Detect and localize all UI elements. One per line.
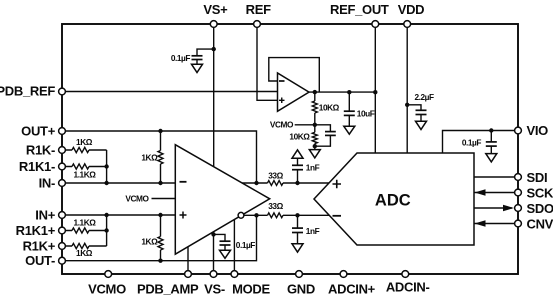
resistor 1KOhm feedback upper	[158, 131, 163, 183]
capacitor 1nF upper	[297, 170, 299, 183]
svg-text:R1K+: R1K+	[23, 239, 56, 254]
wire IN- row	[62, 182, 175, 184]
node OUT+ / 1K fb tap	[158, 129, 162, 133]
wire amp upper output row	[242, 182, 329, 184]
svg-text:1KΩ: 1KΩ	[141, 152, 158, 162]
svg-text:ADCIN-: ADCIN-	[386, 280, 430, 295]
label ADC minus input	[333, 215, 342, 217]
pin R1K+	[59, 243, 66, 250]
pin MODE	[231, 271, 238, 278]
svg-text:REF: REF	[246, 2, 271, 17]
label ADC plus input	[333, 180, 342, 189]
svg-text:REF_OUT: REF_OUT	[330, 2, 389, 17]
svg-text:ADC: ADC	[375, 192, 411, 210]
svg-text:PDB_AMP: PDB_AMP	[137, 282, 199, 297]
node IN- join	[104, 181, 108, 185]
svg-text:33Ω: 33Ω	[268, 170, 283, 180]
node VDD bypass tap	[405, 103, 409, 107]
ground (VIO cap)	[486, 154, 497, 162]
svg-text:SCK: SCK	[527, 186, 553, 201]
pin ADCIN+	[340, 271, 347, 278]
svg-text:OUT-: OUT-	[25, 253, 55, 268]
node IN+ join	[104, 213, 108, 217]
resistor 1.1KOhm (R1K1-)	[62, 164, 107, 169]
pin REF	[254, 21, 261, 28]
resistor 10KOhm upper	[312, 92, 317, 125]
svg-text:1KΩ: 1KΩ	[76, 137, 93, 147]
pin OUT+	[59, 128, 66, 135]
pin R1K1-	[59, 163, 66, 170]
svg-text:1KΩ: 1KΩ	[141, 237, 158, 247]
node R1K1+ join	[104, 228, 108, 232]
pin OUT-	[59, 257, 66, 264]
amplifier (fully differential driver)	[175, 145, 269, 255]
node buffer output / 10K tap	[313, 90, 317, 94]
wire SDI	[474, 176, 515, 178]
node OUT- / 1K fb tap	[158, 259, 162, 263]
node REF_OUT / buffer output	[373, 90, 377, 94]
wire R1K network vertical upper	[106, 150, 108, 183]
capacitor 0.1uF (VIO)	[490, 131, 492, 142]
svg-text:SDO: SDO	[527, 201, 553, 216]
pin CNV	[515, 220, 522, 227]
svg-text:VIO: VIO	[527, 123, 549, 138]
capacitor 0.1uF (VS-)	[220, 241, 231, 245]
resistor 33Ohm lower	[268, 213, 284, 218]
ADC block	[314, 153, 474, 245]
pin VS-	[210, 271, 217, 278]
svg-text:SDI: SDI	[527, 170, 548, 185]
wire SCK	[474, 192, 515, 194]
ground (VS- cap)	[220, 250, 231, 258]
label amp minus input	[180, 181, 187, 183]
wire VS+ vertical to amp	[213, 24, 215, 167]
node VS- cap tap	[211, 232, 215, 236]
wire VS- vertical	[213, 232, 215, 274]
resistor 10KOhm lower	[312, 125, 317, 146]
svg-text:1nF: 1nF	[306, 162, 320, 172]
pin R1K1+	[59, 227, 66, 234]
wire MODE vertical	[233, 220, 235, 275]
node upper 1nF tap	[295, 181, 299, 185]
ground (VS+ cap)	[192, 64, 203, 72]
pin ADCIN-	[402, 271, 409, 278]
ground (1nF lower)	[292, 244, 303, 252]
pin SDO	[515, 205, 522, 212]
svg-text:0.1µF: 0.1µF	[171, 53, 191, 63]
pin IN+	[59, 212, 66, 219]
svg-text:10KΩ: 10KΩ	[289, 132, 310, 142]
node VIO bypass tap	[489, 128, 493, 132]
svg-text:OUT+: OUT+	[21, 124, 56, 139]
arrowhead SCK into ADC	[475, 189, 486, 196]
node lower 1nF tap	[295, 213, 299, 217]
pin REF_OUT	[372, 21, 379, 28]
wire PDB_REF row	[62, 91, 278, 93]
inverting output bubble	[238, 212, 244, 218]
wire 10uF branch	[348, 92, 350, 111]
capacitor 1nF lower	[297, 215, 299, 228]
wire buffer feedback loop	[269, 58, 320, 93]
node 10uF tap	[347, 90, 351, 94]
resistor 1KOhm feedback lower	[158, 215, 163, 261]
outer package border	[62, 24, 518, 274]
wire VS- cap branch	[214, 234, 226, 241]
wire cap to ground	[196, 60, 198, 65]
node VCMO divider	[313, 123, 317, 127]
label amp plus input	[180, 212, 187, 219]
svg-text:CNV: CNV	[527, 217, 553, 232]
svg-text:33Ω: 33Ω	[268, 201, 283, 211]
svg-text:VDD: VDD	[398, 2, 425, 17]
node lower output fb	[254, 213, 258, 217]
svg-text:IN+: IN+	[35, 208, 55, 223]
svg-text:10KΩ: 10KΩ	[319, 102, 340, 112]
label buffer plus input	[279, 98, 285, 104]
node divider bottom	[313, 144, 317, 148]
wire OUT- feedback row	[62, 215, 257, 260]
wire PDB_AMP vertical	[187, 247, 189, 274]
wire REF_OUT vertical	[374, 24, 376, 153]
wire VS+ bypass branch	[197, 49, 214, 56]
pin IN-	[59, 180, 66, 187]
svg-text:R1K-: R1K-	[26, 143, 55, 158]
node upper output fb	[254, 181, 258, 185]
svg-text:VCMO: VCMO	[88, 282, 126, 297]
wire IN+ row	[62, 214, 175, 216]
svg-text:GND: GND	[287, 282, 315, 297]
resistor 33Ohm upper	[268, 181, 284, 186]
svg-text:1nF: 1nF	[306, 226, 320, 236]
capacitor 10uF	[344, 111, 355, 115]
svg-text:0.1µF: 0.1µF	[236, 240, 256, 250]
pin GND	[296, 271, 303, 278]
wire 2.2uF branch	[407, 105, 421, 111]
svg-text:IN-: IN-	[39, 176, 55, 191]
svg-text:10uF: 10uF	[357, 108, 375, 118]
svg-text:R1K1+: R1K1+	[16, 223, 56, 238]
pin VDD	[404, 21, 411, 28]
wire REF vertical to buffer + input	[257, 24, 278, 100]
pin SDI	[515, 174, 522, 181]
ground (2.2uF)	[416, 121, 427, 129]
wire SDO	[474, 207, 512, 209]
wire CNV	[474, 223, 515, 225]
resistor 1.1KOhm (R1K1+)	[62, 228, 107, 233]
svg-text:1KΩ: 1KΩ	[76, 248, 93, 258]
svg-text:VS-: VS-	[204, 282, 225, 297]
capacitor parallel to 10K	[315, 125, 331, 132]
wire amp lower output row	[244, 214, 329, 216]
wire VCMO label stub	[295, 124, 315, 126]
resistor 1KOhm (R1K-)	[62, 147, 107, 152]
svg-text:VS+: VS+	[203, 2, 228, 17]
svg-text:2.2µF: 2.2µF	[415, 92, 435, 102]
svg-text:VCMO: VCMO	[270, 120, 294, 130]
pin VCMO	[105, 271, 112, 278]
svg-text:PDB_REF: PDB_REF	[0, 83, 55, 98]
capacitor 2.2uF	[416, 110, 427, 114]
svg-text:ADCIN+: ADCIN+	[328, 282, 376, 297]
pin R1K-	[59, 147, 66, 154]
svg-text:R1K1-: R1K1-	[19, 159, 55, 174]
svg-text:1.1KΩ: 1.1KΩ	[74, 217, 97, 227]
ground (1nF upper, points up)	[292, 150, 303, 158]
arrowhead SDO to pin	[503, 205, 514, 212]
wire R1K network vertical lower	[106, 215, 108, 246]
pin SCK	[515, 189, 522, 196]
op-amp reference buffer	[278, 73, 310, 111]
ground (10uF)	[344, 126, 355, 134]
wire VCMO amp input	[152, 198, 176, 200]
wire OUT+ feedback row	[62, 131, 257, 183]
svg-text:VCMO: VCMO	[125, 193, 149, 203]
wire buffer output row	[309, 91, 375, 93]
node IN+ / 1K fb	[158, 213, 162, 217]
svg-text:1.1KΩ: 1.1KΩ	[74, 170, 97, 180]
pin PDB_AMP	[185, 271, 192, 278]
arrowhead CNV into ADC	[475, 220, 486, 227]
resistor 1KOhm (R1K+)	[62, 243, 107, 248]
wire VDD vertical	[406, 24, 408, 153]
node IN- / 1K fb	[158, 181, 162, 185]
svg-text:0.1µF: 0.1µF	[462, 137, 482, 147]
node R1K1- join	[104, 164, 108, 168]
label buffer minus input	[279, 80, 285, 82]
ground (divider)	[314, 146, 316, 149]
wire VIO to ADC	[443, 131, 515, 154]
pin PDB_REF	[59, 88, 66, 95]
pin VIO	[515, 127, 522, 134]
node VS+ bypass tap	[212, 47, 216, 51]
pin VS+	[210, 21, 217, 28]
capacitor 0.1uF (VS+)	[192, 56, 203, 60]
svg-text:MODE: MODE	[232, 282, 270, 297]
